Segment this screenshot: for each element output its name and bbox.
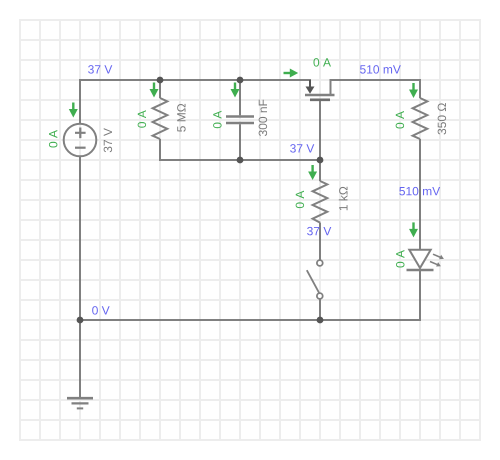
label: 0 A at 5Mohm: [138, 110, 146, 128]
label: node voltage 37 V middle rail: [290, 144, 314, 152]
label: 0 A at source: [49, 130, 57, 148]
current arrow: source branch: [69, 103, 78, 118]
label: 0 A at 350ohm: [396, 111, 404, 129]
wire: capacitor top lead: [239, 80, 241, 115]
wire: 5Mohm top lead: [159, 80, 161, 98]
capacitor C1 300nF: [226, 117, 254, 124]
wire: 350ohm bottom lead down to LED: [419, 139, 421, 250]
current arrow: 350ohm branch: [409, 83, 418, 98]
wire: ground lead: [79, 320, 81, 398]
label: 5 Mohm value: [177, 104, 185, 132]
resistor R1 5 Mohm: [153, 98, 168, 139]
wire: left rail below source: [79, 157, 81, 320]
wire: capacitor bottom lead: [239, 124, 241, 160]
label: node voltage 0 V bottom rail: [92, 306, 109, 314]
label: node voltage 510 mV right rail: [399, 187, 440, 195]
current arrow: 1kohm branch: [308, 165, 317, 180]
label: 37 V source value: [104, 128, 112, 152]
transistor Q1 (MOSFET): [305, 80, 335, 100]
node: junction dot top wire at 5Mohm: [157, 77, 164, 84]
label: 0 A at capacitor: [213, 111, 221, 129]
wire: mosfet source lead: [319, 100, 321, 160]
node: junction dot middle rail at capacitor: [237, 157, 244, 164]
resistor R2 350 ohm: [413, 98, 428, 139]
node: junction dot middle rail at mosfet source: [317, 157, 324, 164]
switch S1 (open): [307, 260, 323, 299]
label: 0 A at 1kohm: [296, 191, 304, 209]
label: 1 kohm value: [339, 187, 348, 211]
current arrow: LED branch: [409, 222, 418, 237]
wire: 1kohm bottom lead to switch: [319, 223, 321, 261]
current arrow: capacitor branch: [231, 83, 240, 98]
node: junction dot bottom rail at ground: [77, 317, 84, 324]
label: node voltage 37 V top rail: [88, 65, 112, 73]
wire: LED bottom lead + bottom rail: [80, 270, 420, 320]
current arrow: gate wire (horizontal): [284, 69, 299, 78]
voltage source V1 37V: [64, 124, 97, 157]
label: 0 A at LED: [396, 250, 404, 268]
label: node voltage 37 V below 1kohm: [307, 227, 331, 235]
resistor R3 1 kohm: [313, 181, 328, 223]
current arrow: 5Mohm branch: [150, 83, 159, 98]
label: 300 nF value: [259, 100, 267, 136]
wire: 1kohm top lead: [319, 160, 321, 181]
ground: [67, 398, 93, 408]
label: node voltage 510 mV top right: [360, 65, 401, 73]
LED D1: [407, 250, 444, 270]
node: junction dot bottom rail at switch: [317, 317, 324, 324]
node: junction dot top wire at capacitor: [237, 77, 244, 84]
wire: drain lead + top right rail + 350ohm top lead: [331, 80, 421, 98]
label: 350 ohm value: [438, 103, 446, 134]
wire: gate lead + top rail + upper left rail: [80, 80, 310, 123]
wire: 5Mohm bottom lead + middle rail: [160, 139, 320, 160]
label: 0 A at mosfet: [313, 58, 331, 66]
wire: switch bottom lead: [319, 299, 321, 320]
